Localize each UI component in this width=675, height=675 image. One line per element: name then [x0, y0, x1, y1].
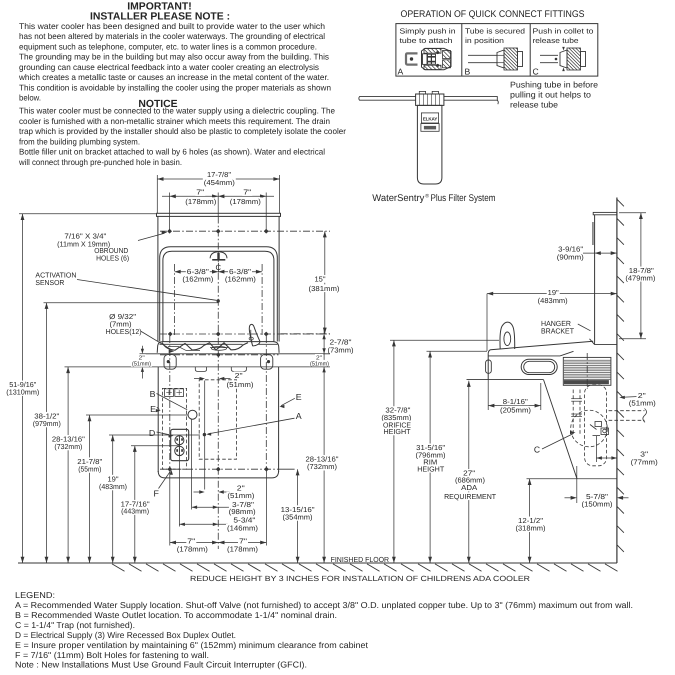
svg-text:(178mm): (178mm)	[177, 545, 208, 554]
svg-text:This condition is avoidable by: This condition is avoidable by installin…	[19, 82, 331, 92]
svg-text:E = Insure proper ventilation: E = Insure proper ventilation by maintai…	[15, 640, 369, 650]
svg-text:(146mm): (146mm)	[227, 523, 258, 532]
svg-text:(51mm): (51mm)	[227, 380, 254, 389]
svg-text:(178mm): (178mm)	[185, 197, 216, 206]
svg-text:®: ®	[425, 194, 429, 200]
svg-text:B: B	[465, 67, 471, 77]
svg-text:below.: below.	[19, 93, 41, 103]
svg-text:(51mm): (51mm)	[629, 399, 656, 408]
svg-text:SENSOR: SENSOR	[35, 278, 64, 287]
svg-text:B: B	[150, 389, 156, 399]
svg-text:E: E	[296, 392, 302, 402]
svg-text:A = Recommended Water Supply l: A = Recommended Water Supply location. S…	[15, 600, 633, 610]
svg-text:REDUCE HEIGHT BY 3 INCHES FOR: REDUCE HEIGHT BY 3 INCHES FOR INSTALLATI…	[190, 574, 531, 583]
svg-text:(77mm): (77mm)	[631, 457, 658, 466]
svg-text:(178mm): (178mm)	[227, 545, 258, 554]
svg-text:FINISHED FLOOR: FINISHED FLOOR	[331, 555, 390, 564]
svg-text:has not been altered by materi: has not been altered by materials in the…	[19, 31, 325, 41]
svg-text:(150mm): (150mm)	[582, 500, 613, 509]
svg-text:7": 7"	[196, 188, 205, 197]
svg-text:ELKAY: ELKAY	[423, 116, 437, 121]
svg-text:(483mm): (483mm)	[538, 296, 568, 305]
svg-text:tube to attach: tube to attach	[400, 36, 453, 45]
svg-text:Simply push in: Simply push in	[400, 26, 456, 35]
svg-text:This water cooler must be conn: This water cooler must be connected to t…	[19, 106, 335, 116]
svg-text:release tube: release tube	[533, 36, 579, 45]
svg-text:HOLES (6): HOLES (6)	[96, 253, 129, 262]
svg-text:7": 7"	[243, 188, 252, 197]
svg-text:WaterSentry: WaterSentry	[372, 193, 424, 204]
svg-text:A: A	[398, 67, 404, 77]
svg-text:from the building plumbing sys: from the building plumbing system.	[19, 136, 140, 146]
svg-text:(454mm): (454mm)	[204, 178, 235, 187]
svg-text:E: E	[150, 404, 156, 414]
svg-text:OPERATION OF QUICK CONNECT FIT: OPERATION OF QUICK CONNECT FITTINGS	[401, 9, 585, 20]
svg-text:A: A	[296, 411, 302, 421]
svg-text:pulling it out helps to: pulling it out helps to	[510, 89, 591, 99]
svg-text:cooler is furnished with a non: cooler is furnished with a non-metallic …	[19, 116, 330, 126]
svg-text:Plus Filter System: Plus Filter System	[431, 193, 496, 204]
svg-text:F: F	[154, 489, 160, 499]
svg-text:The grounding may be in the bu: The grounding may be in the building but…	[19, 52, 329, 62]
svg-text:Pushing tube in before: Pushing tube in before	[510, 79, 598, 89]
svg-text:(51mm): (51mm)	[227, 491, 254, 500]
svg-text:ADA: ADA	[461, 483, 477, 492]
svg-text:(90mm): (90mm)	[557, 253, 584, 262]
svg-text:D: D	[149, 428, 155, 438]
svg-text:HOLES(12): HOLES(12)	[106, 327, 142, 336]
svg-text:(162mm): (162mm)	[225, 274, 256, 283]
svg-text:BRACKET: BRACKET	[541, 326, 574, 335]
svg-text:(178mm): (178mm)	[230, 197, 261, 206]
svg-text:REQUIREMENT: REQUIREMENT	[444, 492, 497, 501]
svg-text:equipment such as telephone, c: equipment such as telephone, computer, e…	[19, 41, 317, 51]
svg-text:(381mm): (381mm)	[309, 284, 340, 293]
svg-text:(51mm): (51mm)	[310, 360, 329, 367]
svg-text:(55mm): (55mm)	[78, 465, 101, 474]
svg-text:(354mm): (354mm)	[283, 513, 313, 522]
svg-text:C: C	[533, 67, 539, 77]
svg-text:in position: in position	[465, 36, 504, 45]
svg-text:which creates a metallic taste: which creates a metallic taste or causes…	[18, 72, 329, 82]
svg-text:(732mm): (732mm)	[54, 442, 82, 451]
svg-text:release tube: release tube	[510, 99, 558, 109]
svg-text:B = Recommended Waste Outlet l: B = Recommended Waste Outlet location. T…	[15, 610, 337, 620]
svg-text:C = 1-1/4" Trap (not furnished: C = 1-1/4" Trap (not furnished).	[15, 620, 135, 630]
svg-text:(479mm): (479mm)	[625, 273, 655, 282]
svg-text:(732mm): (732mm)	[307, 462, 337, 471]
svg-text:Bottle filler unit on bracket: Bottle filler unit on bracket attached t…	[19, 147, 325, 157]
svg-text:will connect through pre-punch: will connect through pre-punched hole in…	[18, 157, 182, 167]
svg-text:grounding can cause electrical: grounding can cause electrical feedback …	[19, 62, 319, 72]
svg-text:15": 15"	[315, 275, 326, 284]
svg-text:(73mm): (73mm)	[328, 345, 354, 354]
svg-text:D = Electrical Supply (3) Wire: D = Electrical Supply (3) Wire Recessed …	[15, 630, 236, 640]
svg-text:(51mm): (51mm)	[132, 361, 151, 368]
svg-text:2": 2"	[235, 371, 244, 380]
svg-text:(205mm): (205mm)	[500, 406, 531, 415]
svg-text:F = 7/16" (11mm) Bolt Holes fo: F = 7/16" (11mm) Bolt Holes for fastenin…	[15, 650, 209, 660]
svg-text:trap which is provided by the: trap which is provided by the installer …	[19, 126, 346, 136]
svg-text:(1310mm): (1310mm)	[6, 388, 39, 397]
svg-text:C: C	[534, 444, 540, 454]
svg-text:(162mm): (162mm)	[182, 274, 213, 283]
svg-text:This water cooler has been des: This water cooler has been designed and …	[19, 21, 325, 31]
svg-text:(318mm): (318mm)	[516, 524, 546, 533]
svg-text:Note : New Installations Must: Note : New Installations Must Use Ground…	[15, 660, 307, 670]
svg-text:LEGEND:: LEGEND:	[15, 590, 55, 600]
svg-text:Push in collet to: Push in collet to	[533, 26, 594, 35]
svg-text:HEIGHT: HEIGHT	[384, 427, 412, 436]
svg-text:(979mm): (979mm)	[33, 419, 61, 428]
svg-text:Tube is secured: Tube is secured	[465, 26, 525, 35]
svg-text:HEIGHT: HEIGHT	[417, 464, 445, 473]
svg-text:(483mm): (483mm)	[99, 482, 127, 491]
svg-text:(443mm): (443mm)	[121, 507, 149, 516]
